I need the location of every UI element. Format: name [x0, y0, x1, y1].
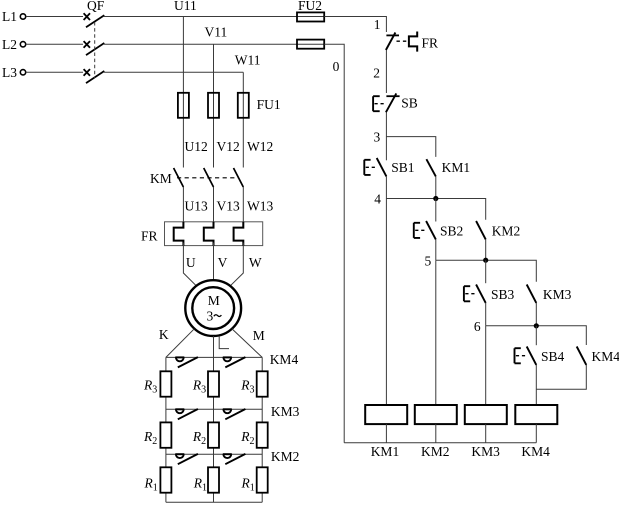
svg-text:KM2: KM2	[492, 224, 521, 239]
node L1	[2, 9, 26, 24]
svg-text:R3: R3	[240, 378, 254, 396]
svg-text:M: M	[208, 293, 220, 308]
svg-text:SB1: SB1	[391, 160, 414, 175]
contact KM3 right	[223, 409, 246, 419]
svg-text:FU1: FU1	[257, 97, 281, 112]
svg-text:0: 0	[333, 59, 340, 74]
wire M	[232, 329, 262, 358]
node L2	[2, 37, 26, 52]
wire U11	[182, 17, 184, 168]
svg-text:KM3: KM3	[271, 404, 300, 419]
wire K	[166, 329, 194, 358]
wire SB3 to node 6	[485, 303, 487, 326]
fuse FU2 lower	[297, 40, 324, 49]
contact KM3 (NO)	[527, 285, 572, 303]
fuse FU1 phase W	[238, 93, 249, 118]
fuse FU2 upper	[297, 0, 324, 22]
wire KM2 to node 5	[485, 239, 487, 260]
wire KM3 coil feed	[485, 326, 487, 405]
svg-text:K: K	[159, 327, 169, 342]
wire node6 to SB4	[535, 326, 537, 345]
resistor R1 left	[160, 467, 171, 492]
wire KM2 coil feed	[435, 260, 437, 405]
node 5	[425, 254, 537, 282]
rail KM4 row	[166, 356, 262, 358]
svg-text:V13: V13	[217, 199, 240, 214]
wire coil KM3 to rail	[485, 424, 487, 443]
wire U to motor	[183, 243, 196, 286]
contact KM4 right	[223, 357, 246, 367]
MAIN CIRCUIT	[2, 0, 324, 502]
svg-text:KM4: KM4	[270, 352, 299, 367]
wire KM4 coil feed	[535, 365, 537, 405]
svg-text:U13: U13	[185, 199, 208, 214]
wire rotor center	[213, 336, 215, 357]
resistor R3 right	[257, 371, 268, 396]
svg-text:L3: L3	[2, 65, 17, 80]
button SB3 (NO)	[464, 285, 515, 303]
svg-text:U: U	[186, 255, 196, 270]
node 4	[374, 192, 485, 220]
FR heater U	[174, 222, 184, 246]
wire KM1 coil feed	[385, 199, 387, 406]
wire L2	[26, 43, 83, 45]
contact KM4 (NO)	[577, 347, 619, 365]
wire KM4 bypass loop	[536, 365, 586, 389]
resistor R2 mid	[208, 422, 219, 447]
svg-text:FU2: FU2	[298, 0, 322, 13]
wire V to motor	[213, 243, 215, 281]
button SB1 (start, NO)	[364, 158, 414, 176]
contact KM2 right	[223, 454, 246, 464]
svg-text:FR: FR	[422, 36, 439, 51]
rail KM2 row	[166, 453, 262, 455]
svg-text:R2: R2	[240, 429, 254, 447]
contact FR (NC)	[386, 32, 438, 52]
svg-text:SB: SB	[401, 96, 418, 111]
svg-text:SB2: SB2	[440, 224, 463, 239]
wire V13	[213, 187, 215, 227]
resistor R2 right	[257, 422, 268, 447]
svg-text:KM1: KM1	[371, 444, 400, 459]
wire neutral line 0	[324, 44, 344, 442]
svg-text:KM4: KM4	[592, 349, 619, 364]
wire KM3 to node 6	[535, 303, 537, 326]
button SB (stop, NC)	[373, 93, 418, 112]
svg-text:1: 1	[374, 17, 381, 32]
svg-text:W: W	[249, 255, 262, 270]
svg-text:SB4: SB4	[541, 349, 565, 364]
svg-text:SB3: SB3	[491, 287, 515, 302]
svg-text:V12: V12	[217, 139, 240, 154]
svg-text:QF: QF	[87, 0, 105, 13]
coil KM2	[415, 405, 457, 424]
svg-text:KM3: KM3	[543, 287, 572, 302]
svg-text:U11: U11	[174, 0, 197, 13]
wire U13	[182, 187, 184, 227]
wire coil KM4 to rail	[535, 424, 537, 443]
wire node4 to SB2	[435, 199, 437, 222]
fuse FU1 phase U	[178, 93, 189, 118]
contactor KM main contacts	[150, 168, 243, 187]
svg-text:6: 6	[474, 319, 481, 334]
svg-text:KM2: KM2	[421, 444, 450, 459]
wire L1 to FU2	[104, 16, 324, 18]
rail KM3 row	[166, 408, 262, 410]
FR heater W	[234, 222, 244, 246]
svg-text:2: 2	[373, 66, 380, 81]
svg-text:L1: L1	[2, 9, 17, 24]
svg-text:FR: FR	[141, 229, 158, 244]
wire V11	[213, 44, 215, 167]
contact KM3 left	[175, 409, 198, 419]
resistor R2 left	[160, 422, 171, 447]
svg-text:V: V	[218, 255, 228, 270]
svg-text:R2: R2	[192, 429, 206, 447]
wire star point rail	[166, 501, 262, 503]
contact KM1 (NO)	[426, 159, 470, 176]
svg-text:L2: L2	[2, 37, 17, 52]
contact KM2 (NO)	[476, 221, 520, 239]
svg-text:KM1: KM1	[442, 160, 471, 175]
svg-text:KM2: KM2	[271, 449, 300, 464]
node L3	[2, 65, 26, 80]
fuse FU1 phase V	[208, 93, 219, 118]
resistor R1 right	[257, 467, 268, 492]
svg-text:R3: R3	[143, 378, 157, 396]
coil KM4	[515, 405, 557, 424]
resistor R1 mid	[208, 467, 219, 492]
wire W11	[242, 72, 244, 167]
wire L1	[26, 16, 83, 18]
wire node 3 branch	[386, 137, 435, 157]
svg-text:W11: W11	[235, 53, 261, 68]
breaker QF	[84, 0, 105, 83]
wire bottom return rail	[344, 442, 536, 444]
svg-text:5: 5	[425, 254, 432, 269]
wire coil KM2 to rail	[435, 424, 437, 443]
svg-text:W13: W13	[247, 199, 273, 214]
CONTROL CIRCUIT	[297, 0, 619, 459]
svg-text:V11: V11	[205, 25, 228, 40]
rotor terminal stub	[219, 336, 229, 349]
coil KM1	[365, 405, 407, 424]
contact KM4 left	[175, 357, 198, 367]
contact KM2 left	[175, 454, 198, 464]
wire W13	[242, 187, 244, 227]
wire node5 to SB3	[485, 260, 487, 283]
wire L2 to FU2	[104, 43, 324, 45]
coil KM3	[465, 405, 507, 424]
button SB2 (NO)	[414, 221, 463, 239]
wire 2-3	[385, 112, 387, 160]
svg-text:3: 3	[207, 309, 214, 324]
resistor R3 left	[160, 371, 171, 396]
wire 1-2	[385, 50, 387, 93]
svg-text:R1: R1	[241, 476, 255, 494]
wire L3	[104, 71, 243, 73]
button SB4 (NO)	[515, 347, 565, 365]
wire L3	[26, 71, 83, 73]
wire coil KM1 to rail	[385, 424, 387, 443]
wire SB1 to node 4	[385, 176, 387, 198]
svg-text:KM: KM	[150, 171, 172, 186]
wire phase to line 1	[324, 17, 386, 33]
wire columns R3	[166, 357, 262, 502]
svg-text:R1: R1	[144, 476, 158, 494]
thermal relay FR box	[141, 222, 263, 246]
wire W to motor	[230, 243, 243, 286]
node 6	[474, 319, 586, 345]
svg-text:3: 3	[374, 130, 381, 145]
resistor R3 mid	[208, 371, 219, 396]
svg-text:U12: U12	[185, 139, 208, 154]
svg-text:W12: W12	[247, 139, 273, 154]
wire SB2 to node 5	[435, 239, 437, 260]
svg-text:R1: R1	[193, 476, 207, 494]
svg-text:R3: R3	[192, 378, 206, 396]
wire KM1 to node 4	[435, 176, 437, 198]
svg-text:R2: R2	[143, 429, 157, 447]
svg-text:KM3: KM3	[471, 444, 500, 459]
svg-text:M: M	[253, 328, 265, 343]
FR heater V	[204, 222, 214, 246]
svg-text:KM4: KM4	[521, 444, 550, 459]
svg-text:4: 4	[374, 192, 381, 207]
motor M 3~	[185, 280, 241, 336]
